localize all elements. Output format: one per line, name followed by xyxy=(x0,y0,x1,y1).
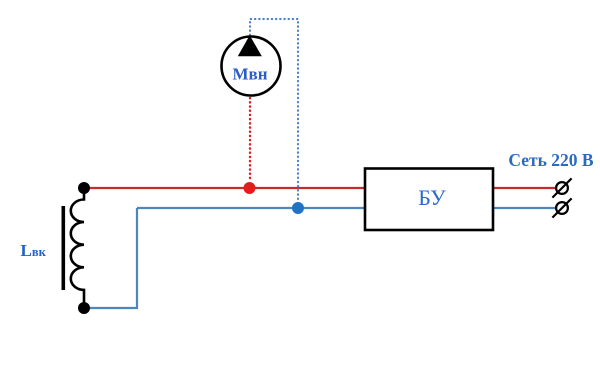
node red junction xyxy=(244,182,256,194)
svg-text:Сеть 220 В: Сеть 220 В xyxy=(508,150,593,170)
control line dotted blue: motor top to blue node xyxy=(250,19,298,202)
node coil bottom xyxy=(78,302,90,314)
control unit БУ box xyxy=(365,169,493,231)
wire red phase: control unit to mains terminal xyxy=(493,187,556,189)
terminal neutral (circle with slash) xyxy=(552,198,571,217)
inductor Lвк coil xyxy=(71,188,84,308)
terminal phase (circle with slash) xyxy=(552,178,571,197)
node coil top xyxy=(78,182,90,194)
wire blue neutral: control unit to mains terminal xyxy=(493,207,556,209)
control line dotted red: motor to red node xyxy=(249,98,251,182)
wire blue neutral: riser to control unit xyxy=(137,207,365,209)
svg-text:Мвн: Мвн xyxy=(232,65,267,84)
svg-text:БУ: БУ xyxy=(418,185,446,210)
motor fan triangle xyxy=(238,35,262,56)
motor U1 Мвн circle xyxy=(222,37,281,96)
node blue junction xyxy=(292,202,304,214)
inductor core bar xyxy=(62,206,66,290)
wire blue neutral: vertical riser from coil bottom xyxy=(84,208,137,308)
wire red phase: coil top to control unit xyxy=(84,187,365,189)
